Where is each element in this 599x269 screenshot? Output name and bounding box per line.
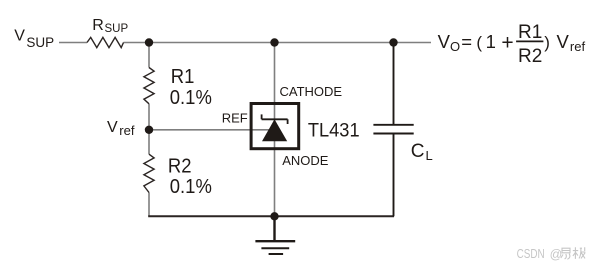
svg-text:=: = [461,31,472,52]
svg-text:R2: R2 [518,46,542,67]
svg-text:+: + [501,31,513,54]
svg-text:ANODE: ANODE [282,153,329,168]
svg-text:ref: ref [570,39,586,54]
svg-text:0.1%: 0.1% [170,175,212,198]
svg-text:CSDN: CSDN [517,247,545,262]
svg-text:0.1%: 0.1% [170,86,212,109]
svg-text:V: V [14,28,25,45]
svg-text:O: O [450,39,460,54]
svg-text:SUP: SUP [105,23,129,35]
svg-text:R: R [92,17,104,34]
svg-text:REF: REF [222,110,248,125]
svg-text:V: V [557,31,570,52]
svg-text:V: V [438,31,451,52]
svg-text:V: V [107,119,118,136]
svg-text:CATHODE: CATHODE [280,84,343,99]
svg-text:L: L [426,148,433,163]
svg-text:): ) [544,33,550,52]
svg-text:(: ( [476,33,482,52]
svg-text:1: 1 [486,31,496,52]
svg-text:SUP: SUP [26,35,54,50]
svg-text:@: @ [550,247,563,261]
svg-text:ref: ref [119,123,135,138]
svg-text:R1: R1 [518,22,542,43]
svg-text:TL431: TL431 [308,119,360,140]
svg-text:C: C [411,141,425,162]
